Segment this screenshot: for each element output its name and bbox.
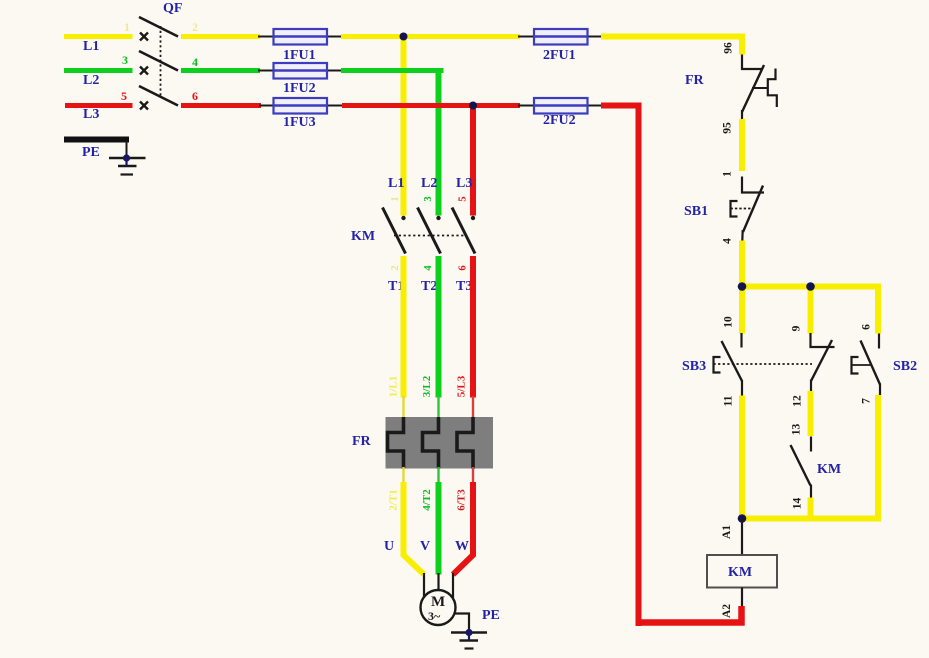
contactor KM main pole 2 dot (436, 216, 440, 220)
svg-text:95: 95 (722, 122, 734, 134)
breaker QF pole 1 cross (140, 33, 148, 41)
wire thin C below FR (472, 467, 474, 483)
svg-text:3: 3 (122, 53, 128, 67)
svg-text:A2: A2 (721, 604, 733, 618)
motor M circle (421, 590, 456, 625)
button SB1 terminal bottom (741, 230, 744, 241)
relay FR heater element 2 (423, 417, 439, 469)
wire stub into 2FU1 (518, 36, 536, 38)
svg-text:14: 14 (792, 498, 804, 510)
svg-text:KM: KM (351, 229, 375, 244)
svg-text:A1: A1 (721, 525, 733, 539)
button SB3 terminal top (740, 333, 742, 348)
PE bus bar (64, 137, 129, 143)
contactor KM main pole 3 dot (471, 216, 475, 220)
wire phase C to motor (453, 482, 473, 575)
wire phase B to motor (436, 482, 442, 575)
wire phase A to motor (404, 482, 425, 575)
button SB3 linkage dotted (714, 363, 813, 365)
wire L1 after QF (181, 34, 260, 39)
svg-text:1: 1 (722, 171, 734, 177)
svg-text:L2: L2 (83, 73, 99, 88)
wire phase B drop (436, 71, 442, 216)
wire L1 top to control corner (601, 34, 745, 55)
wire L3 bus to 2FU2 (342, 103, 520, 108)
svg-text:L3: L3 (83, 107, 99, 122)
svg-text:SB3: SB3 (682, 359, 706, 374)
svg-text:M: M (431, 594, 445, 610)
contactor KM main pole 2 blade (418, 208, 441, 254)
wire L1 bus to 2FU1 (341, 34, 520, 39)
junction dot motor PE (465, 629, 472, 636)
svg-text:V: V (420, 539, 430, 554)
svg-text:1FU1: 1FU1 (283, 48, 316, 63)
relay FR heater element 1 (388, 417, 404, 469)
button SB1 actuator (731, 201, 738, 217)
svg-text:SB2: SB2 (893, 359, 917, 374)
button SB3 blade (722, 341, 743, 381)
relay FR thermal element (768, 69, 777, 108)
button SB3 NO terminal top (811, 333, 835, 347)
wire stub into 2FU2 (518, 105, 536, 107)
wire motor PE stub (468, 633, 470, 641)
junction dot rail left (738, 282, 747, 291)
fuse 2FU1 (534, 29, 588, 45)
svg-text:PE: PE (82, 145, 100, 160)
button SB2 actuator (852, 357, 859, 374)
button SB3 NO blade (811, 340, 832, 381)
junction dot L1 (400, 33, 408, 41)
svg-text:12: 12 (792, 395, 804, 407)
ground PE left (109, 158, 146, 175)
wire phase C to FR (470, 256, 476, 398)
wire phase C drop (470, 106, 476, 216)
svg-text:5: 5 (121, 89, 127, 103)
wire thin A below FR (402, 467, 404, 483)
svg-text:9: 9 (791, 325, 803, 331)
wire PE drop (126, 141, 128, 158)
wire control top rail (742, 284, 878, 334)
svg-text:FR: FR (352, 434, 372, 449)
wire coil lead top (741, 519, 743, 556)
wire L3 left segment (65, 103, 133, 108)
fuse 2FU2 (534, 98, 588, 114)
wire stub out of 1FU2 (325, 70, 343, 72)
wire phase A to FR (401, 256, 407, 398)
svg-text:5: 5 (458, 196, 469, 201)
junction dot rail mid (806, 282, 815, 291)
junction PE dot (123, 154, 130, 161)
svg-text:FR: FR (685, 73, 705, 88)
wire branch1 lower (739, 396, 745, 522)
wire thin C above FR (472, 396, 474, 418)
button SB1 blade (743, 186, 763, 233)
wire motor lead W (452, 573, 454, 598)
wire branch2 mid (808, 391, 814, 436)
svg-text:2: 2 (390, 265, 401, 270)
wire branch3 lower (875, 395, 881, 522)
svg-text:KM: KM (728, 565, 752, 580)
svg-text:1FU3: 1FU3 (283, 115, 316, 130)
relay FR contact terminal bottom (741, 110, 743, 120)
wire motor to ground (455, 614, 470, 633)
svg-text:3~: 3~ (428, 609, 441, 623)
contactor KM main pole 1 blade (383, 208, 406, 254)
breaker QF pole 2 blade (139, 51, 178, 71)
wire phase A drop (401, 37, 407, 216)
breaker QF pole 3 blade (139, 86, 178, 106)
button SB3 NO terminal bottom (810, 380, 812, 393)
wire control bottom rail (742, 516, 878, 522)
svg-text:7: 7 (861, 398, 873, 404)
svg-text:1: 1 (124, 20, 130, 34)
relay FR heater block (386, 417, 494, 469)
wire thin A above FR (402, 396, 404, 418)
breaker QF linkage dotted (160, 26, 162, 96)
fuse 1FU1 (274, 29, 328, 45)
wire motor lead U (423, 573, 425, 597)
svg-text:L1: L1 (388, 176, 404, 191)
svg-text:L2: L2 (421, 176, 437, 191)
svg-text:L3: L3 (456, 176, 472, 191)
wire phase B to FR (436, 256, 442, 398)
wire control 96-95 (739, 119, 745, 171)
svg-text:2: 2 (192, 20, 198, 34)
svg-text:QF: QF (163, 1, 182, 16)
wire stub out of 1FU3 (325, 105, 343, 107)
button SB2 terminal bottom (879, 384, 881, 397)
svg-text:T2: T2 (421, 279, 437, 294)
wire control return red (638, 606, 742, 623)
svg-text:1FU2: 1FU2 (283, 81, 316, 96)
contactor KM linkage dotted (394, 235, 464, 237)
wire branch2 lower (808, 498, 814, 519)
wire stub out of 2FU2 (585, 105, 603, 107)
svg-text:1: 1 (390, 196, 401, 201)
wire L1 left segment (64, 34, 133, 39)
wire branch1 upper (739, 287, 745, 334)
svg-text:6: 6 (861, 324, 873, 330)
breaker QF pole 3 cross (140, 102, 148, 110)
wire stub out of 1FU1 (325, 36, 343, 38)
wire branch2 upper (808, 287, 814, 334)
ground motor (451, 633, 487, 649)
wire thin B below FR (437, 467, 439, 483)
button SB2 terminal top (878, 334, 880, 349)
wire stub out of 2FU1 (585, 36, 603, 38)
svg-text:5/L3: 5/L3 (456, 375, 468, 397)
junction dot L3 (469, 102, 477, 110)
wire stub into 1FU3 (259, 105, 276, 107)
button SB3 terminal bottom (741, 380, 743, 396)
svg-text:6: 6 (192, 89, 198, 103)
junction dot A1 (738, 514, 747, 523)
contactor KM main pole 1 dot (401, 216, 405, 220)
contactor KM aux terminal bottom (810, 485, 812, 499)
svg-text:13: 13 (791, 424, 803, 436)
wire control node4 (739, 241, 745, 290)
relay FR heater element 3 (457, 417, 473, 469)
svg-text:3: 3 (423, 196, 434, 201)
relay FR contact blade (742, 65, 764, 112)
svg-text:1/L1: 1/L1 (388, 376, 400, 397)
svg-text:U: U (384, 539, 394, 554)
svg-text:11: 11 (723, 395, 735, 406)
wire L2 left segment (64, 68, 133, 73)
svg-text:6: 6 (458, 265, 469, 270)
breaker QF pole 2 cross (140, 67, 148, 75)
contactor KM aux terminal top (810, 437, 812, 452)
wire PE ground stub (125, 158, 127, 166)
svg-text:10: 10 (723, 316, 735, 328)
svg-text:KM: KM (817, 462, 841, 477)
svg-text:4: 4 (192, 55, 198, 69)
button SB2 blade (861, 341, 881, 385)
svg-text:4: 4 (722, 238, 734, 244)
fuse 1FU3 (274, 98, 328, 114)
fuse 1FU2 (274, 63, 328, 79)
coil KM box (707, 555, 777, 588)
relay FR contact terminal top (742, 55, 763, 70)
relay FR contact link tick (752, 87, 768, 89)
contactor KM aux blade (791, 445, 811, 486)
svg-text:6/T3: 6/T3 (456, 489, 468, 511)
svg-text:2/T1: 2/T1 (388, 489, 400, 510)
wire L3 after QF (181, 103, 261, 108)
svg-text:L1: L1 (83, 39, 99, 54)
wire motor lead V (437, 573, 439, 590)
button SB1 terminal top (742, 177, 764, 193)
svg-text:4: 4 (423, 265, 434, 271)
wire thin B above FR (437, 396, 439, 418)
wire L3 to red riser corner (601, 103, 642, 627)
wire L2 after QF (181, 68, 260, 73)
svg-text:W: W (455, 539, 469, 554)
svg-text:96: 96 (723, 42, 735, 54)
button SB1 actuator link (731, 208, 753, 210)
wire L2 bus (341, 71, 441, 74)
svg-text:4/T2: 4/T2 (421, 489, 433, 511)
wire stub into 1FU1 (258, 36, 276, 38)
svg-text:2FU2: 2FU2 (543, 113, 576, 128)
breaker QF pole 1 blade (139, 17, 178, 37)
svg-text:PE: PE (482, 608, 500, 623)
wire coil lead bottom (741, 588, 743, 609)
svg-text:3/L2: 3/L2 (421, 375, 433, 397)
svg-text:2FU1: 2FU1 (543, 48, 576, 63)
svg-text:SB1: SB1 (684, 204, 708, 219)
svg-text:T3: T3 (456, 279, 472, 294)
contactor KM main pole 3 blade (452, 208, 475, 254)
button SB2 actuator link (852, 364, 872, 366)
wire stub into 1FU2 (258, 70, 276, 72)
button SB3 actuator (714, 357, 721, 373)
